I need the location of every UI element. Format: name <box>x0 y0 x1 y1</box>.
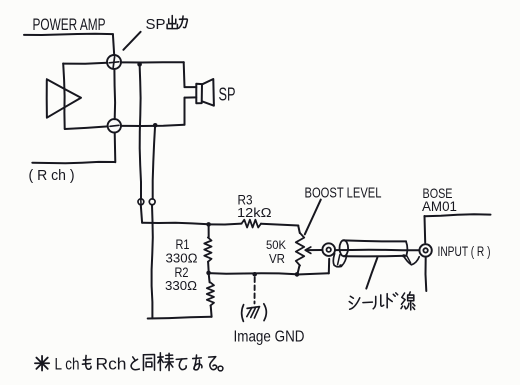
label Image GND <box>234 329 305 346</box>
resistor R3 <box>242 220 262 228</box>
svg-text:Image GND: Image GND <box>234 329 305 346</box>
leader line シールド線 to cable <box>366 258 377 289</box>
wire bottom rail (SP- to R2) <box>148 317 212 319</box>
wire shield to image gnd rail <box>297 259 329 275</box>
label R2 <box>165 264 197 293</box>
connector RCA jack right INPUT <box>419 244 431 256</box>
terminal + (SP output hot) <box>107 55 121 69</box>
label (R ch) <box>29 167 75 184</box>
svg-text:VR: VR <box>269 252 285 266</box>
wire + drop to divider top rail <box>140 64 143 222</box>
svg-text:330Ω: 330Ω <box>165 279 197 293</box>
terminal - (SP output cold) <box>108 119 121 132</box>
junction top rail / R1 <box>206 222 211 227</box>
junction image gnd tap <box>252 272 257 277</box>
label POWER AMP <box>33 15 106 34</box>
junction - node <box>153 123 158 128</box>
wire (R ch) stub below - terminal <box>32 133 115 164</box>
svg-text:R2: R2 <box>175 264 189 280</box>
ground (image GND) symbol in parentheses <box>242 304 267 322</box>
resistor R1 leads+body <box>204 224 211 272</box>
svg-text:12kΩ: 12kΩ <box>237 206 272 220</box>
svg-text:SP: SP <box>219 85 236 105</box>
amp output box <box>63 63 115 129</box>
dashed lead to image ground <box>254 277 256 303</box>
op-amp A1 (power amp triangle) <box>47 79 81 118</box>
shielded cable (core + jacket) <box>335 240 419 256</box>
leader line SP出力 to + terminal <box>123 32 140 50</box>
svg-text:50K: 50K <box>266 238 286 252</box>
connector RCA plug left <box>322 243 335 256</box>
svg-text:Rch: Rch <box>96 355 127 374</box>
wire top rail to R3 and VR <box>142 223 241 225</box>
label 50k VR <box>266 238 286 266</box>
wire + output to speaker top <box>121 62 196 87</box>
wire VR bottom lead <box>297 266 299 275</box>
svg-text:BOOST LEVEL: BOOST LEVEL <box>305 186 382 202</box>
junction + node <box>137 62 142 67</box>
wire R3 to VR top <box>261 224 300 233</box>
label シールド線 <box>349 292 415 310</box>
resistor R2 leads+body <box>207 273 214 317</box>
label SP <box>219 85 236 105</box>
wire POWER AMP leader underline <box>24 34 114 56</box>
label BOOST LEVEL <box>305 186 382 202</box>
label R1 <box>166 236 198 266</box>
shield braid left <box>333 254 346 268</box>
potentiometer VR 50k body <box>296 233 304 266</box>
wire image-gnd rail (R1/R2 node to VR bottom) <box>209 273 297 274</box>
note ※ Lch も Rch と同様である。 <box>35 353 223 374</box>
label SP出力 <box>146 16 188 34</box>
svg-text:SP: SP <box>146 16 166 33</box>
svg-text:R1: R1 <box>176 236 190 252</box>
label R3 <box>237 192 272 221</box>
shield braid right <box>402 254 419 265</box>
leader line BOOST LEVEL to VR <box>305 200 321 235</box>
wire - output to speaker bottom <box>121 97 196 126</box>
potentiometer wiper arrow <box>305 247 322 253</box>
connector plug on + drop <box>138 199 144 205</box>
speaker SP <box>196 79 214 106</box>
svg-text:( R ch ): ( R ch ) <box>29 167 75 184</box>
svg-text:AM01: AM01 <box>422 198 457 214</box>
connector plug on - drop <box>149 199 155 205</box>
label INPUT (R) <box>438 243 491 259</box>
svg-text:INPUT ( R ): INPUT ( R ) <box>438 243 491 259</box>
junction VR bottom <box>295 272 300 277</box>
svg-text:POWER AMP: POWER AMP <box>33 15 106 34</box>
junction R1/R2 image-gnd node <box>206 271 211 276</box>
wire - drop to ground rail <box>152 125 156 318</box>
svg-text:L ch: L ch <box>55 355 80 374</box>
label BOSE AM01 <box>422 185 457 214</box>
BOSE AM01 boundary line <box>424 214 490 291</box>
